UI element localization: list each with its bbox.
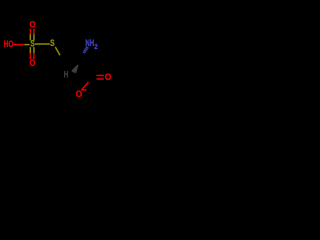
background: [0, 0, 120, 120]
wire S2-CH2 olive half: [55, 47, 60, 55]
solid wedge C-H: [71, 65, 78, 74]
double bond C=O right: [97, 74, 104, 76]
hashed wedge C-N (4 dashes): [86, 47, 89, 49]
wire HO-S1 red half: [13, 44, 24, 46]
svg-text:S: S: [50, 38, 54, 48]
svg-text:O: O: [105, 72, 112, 82]
svg-text:2: 2: [94, 44, 97, 51]
wire C-O minus: [81, 82, 88, 90]
wire S1-S2: [35, 43, 50, 45]
wire HO-S1 olive half: [24, 44, 29, 46]
svg-text:O: O: [76, 89, 82, 99]
double bond S1=O bottom: [29, 47, 31, 53]
svg-text:O: O: [30, 58, 36, 68]
svg-text:H: H: [64, 69, 69, 79]
svg-text:O: O: [30, 20, 36, 30]
double bond S1=O top: [29, 29, 31, 34]
charge minus: [82, 89, 87, 91]
svg-text:HO: HO: [4, 38, 14, 49]
